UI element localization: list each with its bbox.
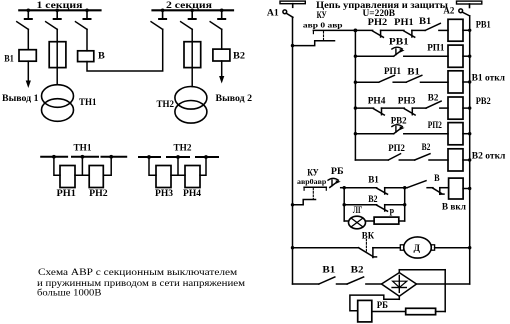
svg-text:ВК: ВК — [362, 230, 374, 241]
svg-text:РН3: РН3 — [155, 188, 173, 199]
wire taps to PH3 PH4 — [149, 157, 206, 175]
lamp LG — [344, 205, 365, 229]
bus section 2 — [153, 0, 234, 11]
TH2 secondary terminal bars — [139, 156, 218, 158]
svg-text:Схема АВР с секционным выключа: Схема АВР с секционным выключателем — [38, 267, 237, 278]
svg-text:РП1: РП1 — [384, 66, 401, 77]
disconnector feeder 2 section 1 — [46, 10, 61, 29]
coil B1 otkl — [448, 71, 506, 93]
breaker B sectional — [78, 29, 106, 61]
control key KU2 — [293, 168, 327, 205]
node: TH1 secondary taps — [52, 155, 113, 159]
relay PH4 — [183, 166, 201, 200]
svg-text:В: В — [98, 50, 105, 61]
wire RB to resistor — [372, 311, 406, 313]
wire bridge top to vertical — [399, 269, 445, 271]
title control circuit — [316, 0, 448, 19]
svg-text:В вкл: В вкл — [442, 201, 467, 212]
contact before coil (NC) — [433, 188, 449, 195]
disconnector feeder 3 section 2 — [210, 10, 225, 29]
svg-text:ТН1: ТН1 — [74, 143, 92, 154]
rung 1: contact PH1 (NC) — [381, 17, 415, 37]
row B2 contact (NC) — [344, 194, 405, 211]
coil PP1 — [427, 42, 470, 67]
svg-text:РН1: РН1 — [394, 17, 414, 28]
svg-text:авр 0 авр: авр 0 авр — [303, 21, 343, 29]
arrow output 2 — [216, 61, 253, 104]
svg-text:В1: В1 — [322, 265, 335, 276]
wire rung1 from KU1 bar to node bus — [313, 29, 372, 31]
rung 2: time contact PB1 — [355, 36, 448, 56]
rung 4: contact PH3 (NC) — [382, 96, 416, 115]
fuse A1 — [280, 1, 305, 7]
transformer TH1 — [42, 85, 97, 122]
node bus vertical — [354, 30, 356, 160]
fuse A2 — [457, 1, 482, 7]
contact B (NO) — [405, 173, 440, 188]
rung 4: contact PH4 (NC) — [355, 96, 385, 115]
node vertical right of parallel group — [404, 188, 406, 221]
svg-text:В1: В1 — [419, 16, 432, 27]
fuse FU2 — [184, 42, 201, 68]
switch A2 — [443, 6, 469, 17]
svg-text:В2: В2 — [428, 92, 439, 103]
svg-text:РВ1: РВ1 — [476, 20, 491, 31]
relay RB coil — [358, 300, 388, 322]
time contact RB — [328, 166, 344, 188]
arrow output 1 — [2, 61, 39, 104]
left rail — [292, 17, 294, 284]
svg-text:В2: В2 — [368, 194, 378, 205]
rung 1: contact PH2 (NC) — [368, 17, 388, 37]
coil PP2 — [428, 120, 470, 145]
svg-text:РН2: РН2 — [89, 188, 108, 199]
breaker B2 — [213, 29, 245, 61]
svg-text:РБ: РБ — [377, 300, 388, 311]
relay PH2 — [89, 166, 108, 200]
svg-text:РН3: РН3 — [398, 96, 416, 107]
svg-text:В2: В2 — [233, 50, 245, 61]
svg-text:2 секция: 2 секция — [166, 0, 212, 11]
node: bus2 tap junctions — [161, 9, 224, 13]
wire feeder2-2 through fuse — [191, 29, 193, 86]
switch A1 — [267, 7, 293, 18]
svg-text:1 секция: 1 секция — [37, 0, 83, 11]
wire bridge right corner to rail — [417, 283, 470, 285]
node vertical left of parallel group — [343, 188, 345, 221]
svg-text:В2: В2 — [351, 265, 364, 276]
wire resistor to vertical — [436, 311, 446, 313]
svg-text:ТН2: ТН2 — [157, 99, 175, 110]
svg-text:В: В — [434, 173, 440, 184]
svg-text:РП1: РП1 — [427, 42, 444, 53]
svg-text:ТН2: ТН2 — [174, 143, 192, 154]
svg-text:РВ2: РВ2 — [476, 96, 491, 107]
right rail — [469, 16, 471, 284]
node: rail dots — [291, 44, 294, 250]
schema caption — [37, 267, 245, 299]
resistor P — [366, 207, 405, 224]
node: group dots — [343, 186, 407, 206]
relay PH1 — [57, 166, 77, 200]
coil B vkl — [442, 178, 470, 212]
svg-text:Вывод 2: Вывод 2 — [216, 93, 253, 104]
rung 6: contact PP2 (NO) — [355, 143, 414, 160]
node: right rail dots — [468, 29, 471, 250]
svg-text:РВ1: РВ1 — [389, 36, 409, 47]
motor D — [400, 237, 469, 258]
svg-text:РН2: РН2 — [368, 17, 388, 28]
diode bridge — [382, 270, 417, 300]
svg-text:Вывод 1: Вывод 1 — [2, 93, 39, 104]
svg-text:РП2: РП2 — [388, 143, 405, 154]
rung 1: contact B1 (NO) — [412, 16, 448, 30]
disconnector feeder 2 section 2 — [181, 10, 196, 29]
breaker B1 — [4, 50, 36, 65]
rung 3: contact PP1 (NO) — [355, 66, 406, 82]
disconnector feeder 1 section 2 — [151, 10, 166, 29]
svg-text:РН1: РН1 — [57, 188, 77, 199]
bus section 1 — [19, 0, 100, 11]
svg-text:ЛГ: ЛГ — [353, 205, 363, 216]
control key KU1 — [293, 10, 343, 46]
bottom row: contact B1 (NO) — [293, 265, 348, 284]
svg-text:РП2: РП2 — [428, 120, 442, 131]
svg-text:КУ: КУ — [317, 10, 327, 21]
coil B2 otkl — [448, 149, 506, 171]
wire bridge bottom to RB loop — [350, 295, 399, 311]
disconnector feeder 3 section 1 — [76, 10, 91, 29]
rung 5: time contact PB2 — [355, 115, 448, 133]
disconnector feeder 1 section 1 — [17, 10, 32, 29]
wire feeder2 through fuse — [56, 29, 58, 84]
row B1 contact (NC) — [344, 175, 405, 195]
transformer TH2 — [157, 87, 207, 124]
svg-text:А1: А1 — [267, 7, 279, 18]
limit switch VK (NC) — [293, 230, 401, 257]
svg-text:РН4: РН4 — [368, 96, 386, 107]
svg-text:В2: В2 — [422, 142, 431, 153]
node: TH2 secondary taps — [147, 155, 208, 159]
svg-text:В1 откл: В1 откл — [472, 73, 506, 84]
coil PB1 — [448, 19, 491, 41]
rung 6: contact B2 (NO) — [415, 142, 448, 160]
bottom row: contact B2 (NO) — [347, 265, 381, 284]
node: bus dots — [354, 29, 358, 136]
svg-text:В1: В1 — [4, 53, 14, 64]
coil PB2 — [448, 96, 491, 119]
svg-text:В1: В1 — [368, 175, 379, 186]
TH1 secondary terminal bars — [41, 156, 126, 158]
svg-text:РБ: РБ — [331, 166, 344, 177]
svg-text:В2 откл: В2 откл — [472, 151, 506, 162]
fuse FU1 — [49, 42, 66, 68]
wire sectional link — [87, 29, 163, 71]
svg-text:ТН1: ТН1 — [79, 97, 97, 108]
svg-text:авр0авр: авр0авр — [297, 178, 326, 186]
svg-text:РН4: РН4 — [183, 188, 201, 199]
svg-text:А2: А2 — [443, 6, 454, 17]
rung 3: contact B1 (NO) — [406, 66, 448, 82]
relay PH3 — [155, 166, 173, 200]
svg-text:больше 1000В: больше 1000В — [37, 288, 102, 299]
wire taps to PH1 PH2 — [54, 157, 111, 176]
rung 4: contact B2 (NO) — [412, 92, 448, 108]
vertical connector right of bridge — [444, 270, 446, 312]
resistor bottom — [406, 308, 436, 314]
node: bus1 tap junctions — [27, 9, 89, 13]
wire feeder1 to B1 — [27, 29, 29, 49]
svg-text:Д: Д — [414, 243, 421, 254]
svg-text:В1: В1 — [407, 66, 420, 77]
